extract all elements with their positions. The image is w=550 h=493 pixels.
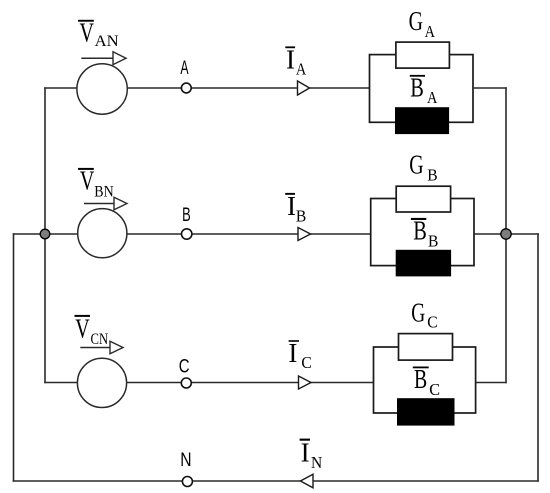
conductance G_A box <box>396 42 450 68</box>
wire: phase B row, neutral link to source <box>13 233 78 235</box>
current label I_N <box>300 437 323 472</box>
current label I_C <box>288 338 311 372</box>
conductance G_C box <box>399 334 453 361</box>
load C outer loop <box>374 347 476 413</box>
svg-text:B: B <box>413 216 427 246</box>
susceptance B_C box (filled) <box>398 399 455 425</box>
value label B_A <box>410 73 438 108</box>
current arrow I_A <box>298 81 310 95</box>
svg-text:B: B <box>414 364 427 394</box>
node B terminal <box>182 229 192 239</box>
load A outer loop <box>370 55 474 123</box>
svg-text:A: A <box>296 60 307 79</box>
svg-text:N: N <box>311 453 322 472</box>
svg-text:A: A <box>425 22 436 41</box>
svg-text:C: C <box>429 380 440 399</box>
value label G_B <box>409 149 437 184</box>
svg-text:B: B <box>182 205 191 226</box>
svg-text:C: C <box>301 353 311 372</box>
svg-text:I: I <box>286 44 295 74</box>
value label V_AN <box>78 18 119 51</box>
wire: phase A row, source to terminal A <box>127 87 182 89</box>
svg-text:CN: CN <box>91 331 109 348</box>
susceptance B_B box (filled) <box>396 250 450 276</box>
value label G_C <box>411 297 437 331</box>
svg-text:V: V <box>75 313 90 343</box>
svg-text:G: G <box>411 297 425 327</box>
svg-text:I: I <box>287 191 296 221</box>
svg-text:BN: BN <box>94 184 113 201</box>
current arrow I_B <box>298 228 311 241</box>
wire: phase C row, terminal C to load <box>191 382 373 384</box>
wire: phase C row, bus to source <box>44 382 77 384</box>
junction: right bus / neutral tie <box>501 229 511 239</box>
voltage source V_CN reference arrow <box>80 341 123 354</box>
value label V_BN <box>78 166 114 201</box>
load B outer loop <box>371 199 474 266</box>
susceptance B_A box (filled) <box>396 108 449 134</box>
current label I_B <box>285 191 306 225</box>
wire: right bus vertical (x=506) <box>505 87 507 383</box>
node C terminal <box>181 378 191 388</box>
svg-text:A: A <box>427 88 438 107</box>
svg-text:C: C <box>427 312 437 331</box>
svg-text:AN: AN <box>95 33 119 50</box>
svg-text:B: B <box>296 206 306 225</box>
svg-text:B: B <box>428 231 438 250</box>
svg-text:V: V <box>80 166 95 196</box>
node N terminal <box>182 477 192 487</box>
svg-text:G: G <box>409 6 423 36</box>
wire: phase B row, load to right neutral link <box>474 233 539 235</box>
value label B_B <box>411 216 439 251</box>
wire: right neutral vertical (x=538) <box>537 233 539 482</box>
voltage source V_BN reference arrow <box>84 197 127 210</box>
wire: neutral N row, right segment <box>192 480 539 482</box>
wire: phase C row, source to terminal C <box>127 382 182 384</box>
node A terminal <box>181 83 191 93</box>
svg-text:A: A <box>180 58 188 79</box>
svg-text:C: C <box>179 357 190 378</box>
svg-text:I: I <box>288 338 297 368</box>
wire: neutral N row, left segment <box>13 480 183 482</box>
svg-text:B: B <box>427 165 437 184</box>
value label V_CN <box>75 313 109 348</box>
wire: phase B row, terminal B to load <box>192 233 371 235</box>
wire: phase A row, terminal A to load <box>191 87 369 89</box>
voltage source V_AN reference arrow <box>81 52 126 65</box>
current arrow I_N (pointing left) <box>300 474 313 488</box>
current label I_A <box>285 44 307 78</box>
wire: phase A row, bus to source <box>44 87 77 89</box>
value label B_C <box>413 364 440 399</box>
voltage source V_CN circle <box>77 358 126 407</box>
wire: left neutral vertical (x=13.5) <box>13 233 15 482</box>
current arrow I_C <box>299 376 312 389</box>
svg-text:G: G <box>409 149 423 179</box>
voltage source V_BN circle <box>78 209 127 258</box>
junction: left bus / neutral tie <box>40 229 50 239</box>
svg-text:B: B <box>410 73 424 103</box>
svg-text:I: I <box>301 437 310 467</box>
svg-text:V: V <box>80 18 95 48</box>
svg-text:N: N <box>180 450 191 471</box>
voltage source V_AN circle <box>77 64 127 114</box>
wire: phase C row, load to right bus <box>476 382 507 384</box>
wire: phase A row, load to right bus <box>473 87 507 89</box>
wire: left bus vertical (x=45) <box>44 87 46 383</box>
conductance G_B box <box>396 186 450 212</box>
wire: phase B row, source to terminal B <box>127 233 182 235</box>
value label G_A <box>409 6 436 41</box>
